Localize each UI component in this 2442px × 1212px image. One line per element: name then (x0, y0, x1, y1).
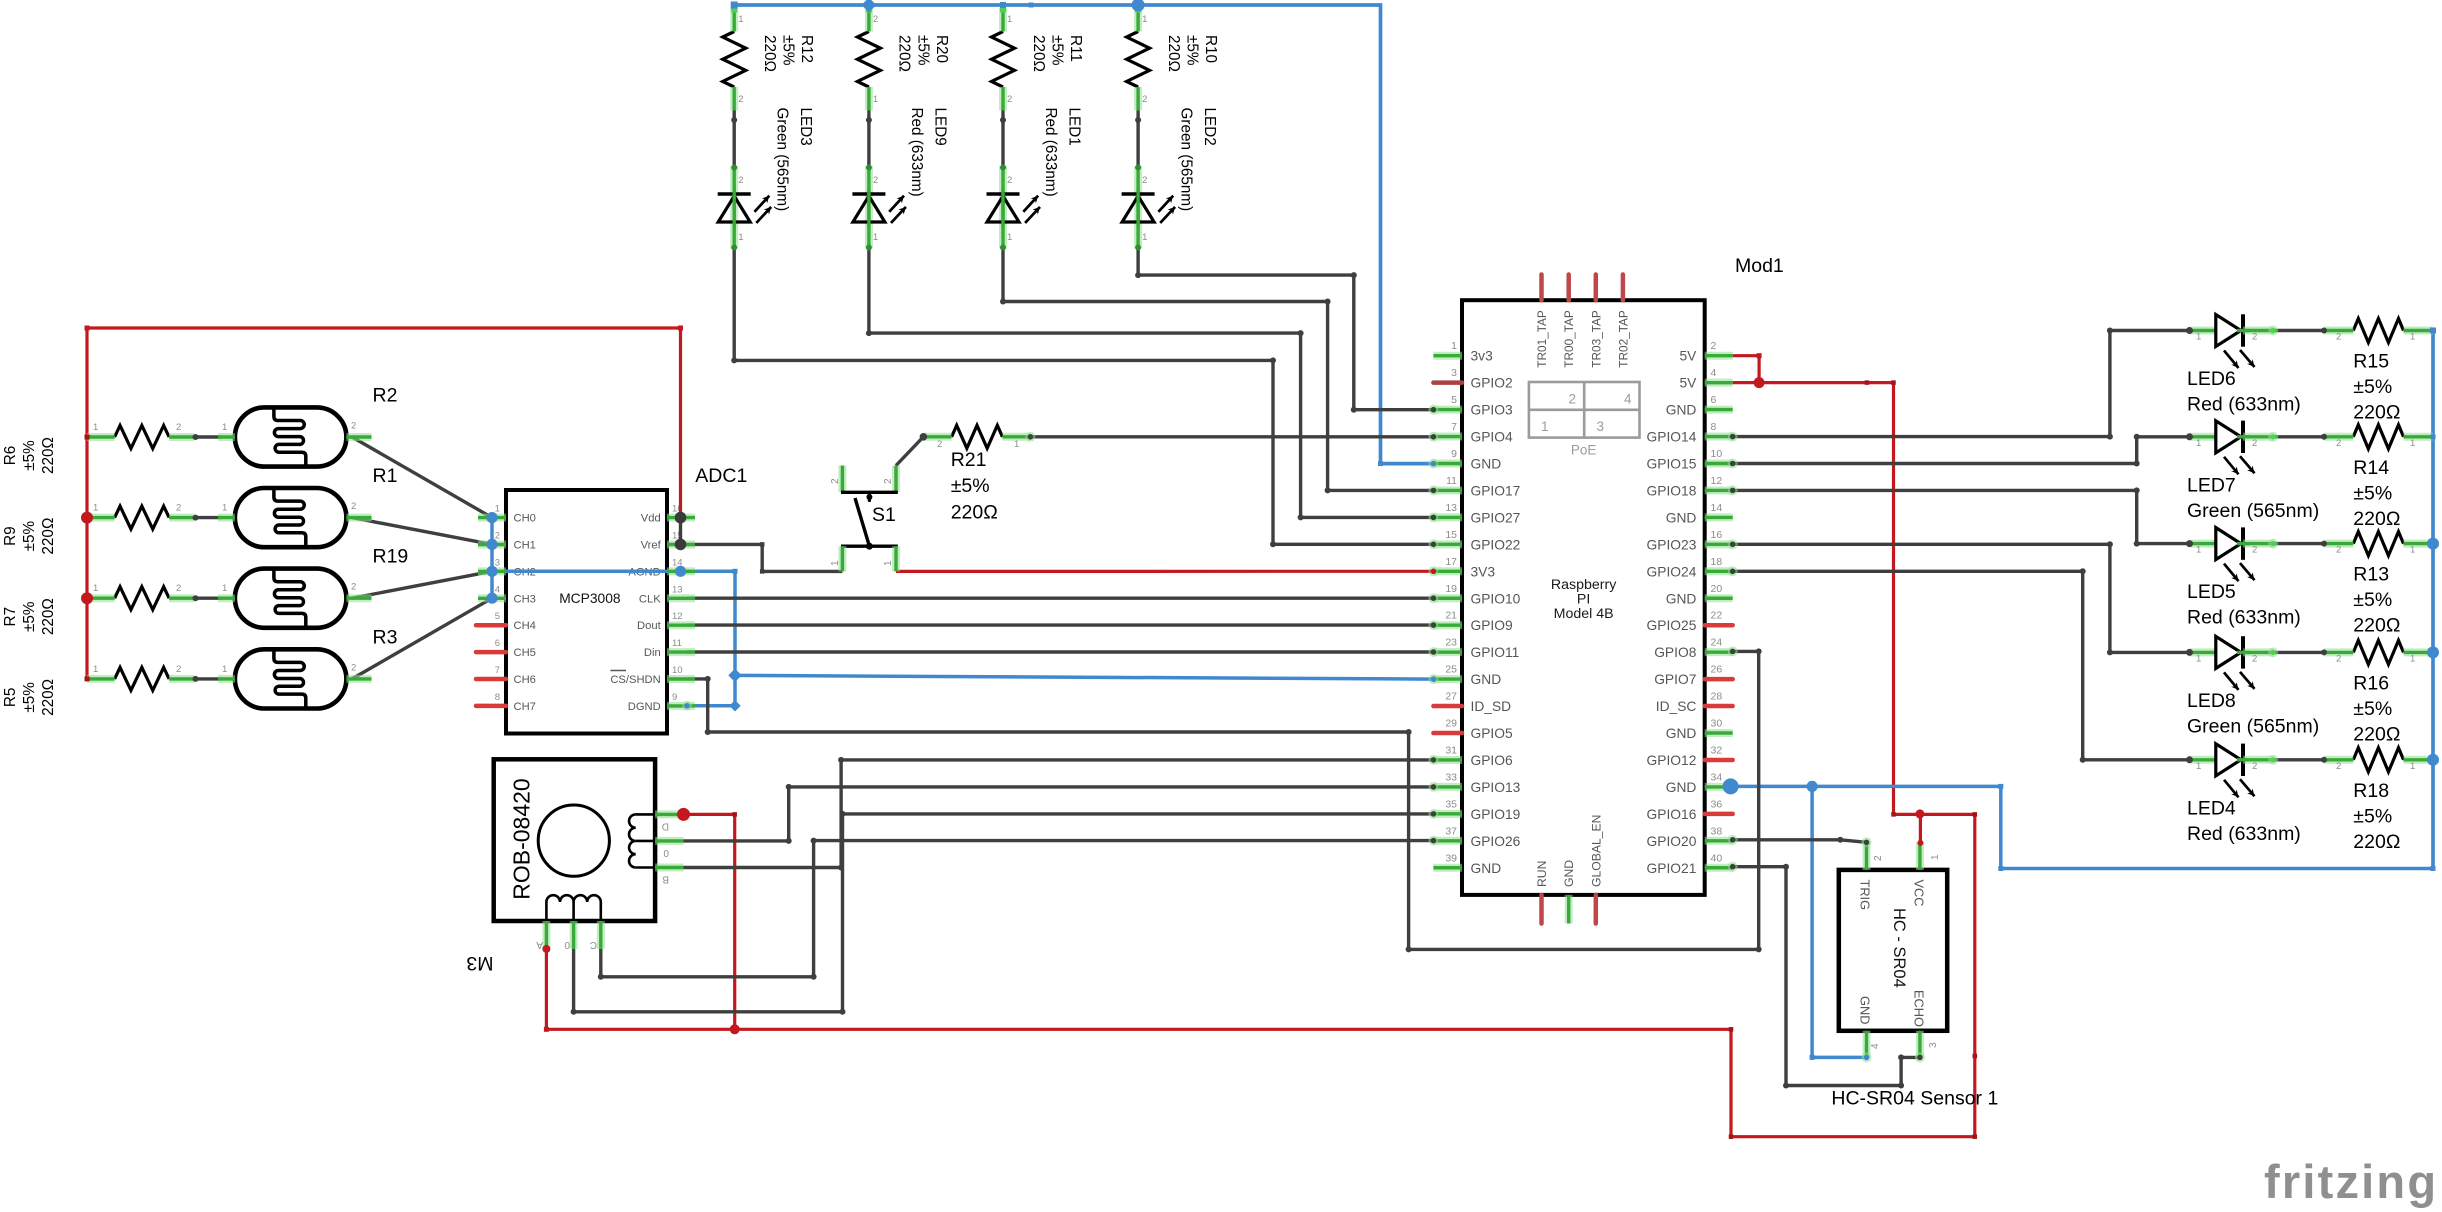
svg-text:TR00_TAP: TR00_TAP (1562, 310, 1576, 368)
svg-text:4: 4 (495, 584, 500, 595)
photoresistor R3 body (235, 649, 347, 708)
svg-text:2: 2 (176, 664, 181, 675)
svg-text:±5%: ±5% (2353, 698, 2392, 720)
svg-text:GND: GND (1858, 996, 1873, 1024)
svg-text:25: 25 (1445, 664, 1457, 676)
svg-text:2: 2 (351, 501, 356, 512)
svg-text:2: 2 (1142, 175, 1147, 186)
svg-text:1: 1 (2410, 653, 2415, 664)
svg-text:22: 22 (1711, 610, 1723, 622)
svg-text:ECHO: ECHO (1912, 990, 1927, 1027)
svg-text:33: 33 (1445, 771, 1457, 783)
svg-text:16: 16 (1711, 529, 1723, 541)
svg-text:ADC1: ADC1 (695, 465, 747, 487)
svg-text:Green (565nm): Green (565nm) (1177, 108, 1194, 212)
wire MCP3008 CLK to Pi GPIO10 (687, 597, 1433, 600)
resistor R18 220 ohm (2353, 748, 2403, 772)
svg-text:±5%: ±5% (2353, 376, 2392, 398)
svg-text:GPIO25: GPIO25 (1647, 618, 1697, 633)
svg-text:3: 3 (1597, 419, 1605, 434)
wire MCP3008 Dout to Pi GPIO9 (687, 623, 1433, 626)
svg-text:GND: GND (1562, 860, 1576, 887)
svg-text:LED4: LED4 (2187, 797, 2236, 819)
wire motor pin 0 (bottom) to Pi GPIO19 (574, 814, 1434, 1012)
svg-text:VCC: VCC (1912, 880, 1927, 907)
svg-text:GPIO14: GPIO14 (1647, 430, 1697, 445)
svg-text:GPIO20: GPIO20 (1647, 834, 1697, 849)
svg-text:GPIO15: GPIO15 (1647, 457, 1697, 472)
svg-text:B: B (662, 874, 669, 885)
resistor R10 220 ohm (1127, 32, 1150, 88)
svg-text:ID_SD: ID_SD (1471, 699, 1512, 714)
svg-text:GPIO12: GPIO12 (1647, 753, 1697, 768)
svg-text:1: 1 (1142, 14, 1147, 25)
svg-text:1: 1 (2196, 545, 2201, 556)
svg-text:2: 2 (176, 422, 181, 433)
wire R3 to MCP3008 CH3 (352, 598, 492, 679)
svg-text:1: 1 (1014, 439, 1019, 450)
svg-text:GPIO8: GPIO8 (1654, 645, 1696, 660)
svg-text:3: 3 (1928, 1042, 1939, 1048)
svg-text:220Ω: 220Ω (40, 679, 57, 716)
svg-text:1: 1 (1930, 854, 1941, 860)
MCP3008 pins (478, 514, 506, 522)
svg-text:A: A (536, 939, 543, 950)
svg-text:5: 5 (495, 611, 500, 622)
svg-text:1: 1 (93, 422, 98, 433)
svg-text:GPIO24: GPIO24 (1647, 564, 1697, 579)
svg-text:GPIO9: GPIO9 (1471, 618, 1513, 633)
svg-text:CH5: CH5 (514, 647, 536, 659)
svg-text:Red (633nm): Red (633nm) (2187, 607, 2301, 629)
svg-text:1: 1 (2196, 653, 2201, 664)
svg-text:39: 39 (1445, 852, 1457, 864)
svg-text:220Ω: 220Ω (2353, 508, 2400, 530)
svg-text:4: 4 (1624, 392, 1632, 407)
svg-text:31: 31 (1445, 744, 1457, 756)
wire LED6 cathode to R15 (2273, 329, 2324, 332)
svg-text:2: 2 (1711, 340, 1717, 352)
photoresistor R19 body (235, 569, 347, 628)
resistor R11 220 ohm (992, 32, 1015, 88)
svg-text:220Ω: 220Ω (2353, 402, 2400, 424)
svg-text:±5%: ±5% (2353, 482, 2392, 504)
svg-text:CS/SHDN: CS/SHDN (610, 674, 660, 686)
photoresistor R19 stubs (193, 595, 199, 601)
photoresistor R1 stubs (193, 515, 199, 521)
svg-text:220Ω: 220Ω (951, 502, 998, 524)
resistor R13 220 ohm (2353, 532, 2403, 556)
svg-text:R13: R13 (2353, 564, 2389, 586)
svg-text:1: 1 (222, 422, 227, 433)
svg-text:LED2: LED2 (1201, 108, 1218, 146)
svg-text:R10: R10 (1202, 35, 1219, 63)
svg-text:GPIO18: GPIO18 (1647, 483, 1697, 498)
svg-text:2: 2 (830, 478, 841, 484)
wire red 5V net: Pi pin2/pin4 to motor and HC-SR04 (1733, 356, 1759, 383)
photoresistor R3 stubs (193, 676, 199, 682)
svg-text:GPIO2: GPIO2 (1471, 376, 1513, 391)
svg-text:1: 1 (2410, 438, 2415, 449)
svg-text:8: 8 (1711, 421, 1717, 433)
svg-text:1: 1 (222, 583, 227, 594)
svg-text:1: 1 (93, 664, 98, 675)
svg-text:36: 36 (1711, 798, 1723, 810)
svg-text:5V: 5V (1680, 376, 1698, 391)
svg-text:LED8: LED8 (2187, 690, 2236, 712)
svg-text:23: 23 (1445, 637, 1457, 649)
svg-text:2: 2 (937, 439, 942, 450)
svg-text:Red (633nm): Red (633nm) (908, 108, 925, 197)
svg-text:34: 34 (1711, 771, 1723, 783)
svg-text:GPIO26: GPIO26 (1471, 834, 1521, 849)
svg-text:R19: R19 (373, 546, 409, 568)
svg-text:2: 2 (351, 421, 356, 432)
svg-text:GPIO17: GPIO17 (1471, 483, 1521, 498)
wire R6 to R2 (194, 435, 222, 438)
svg-text:D: D (662, 821, 669, 832)
wire Pi to LED5 anode (1733, 490, 2190, 543)
svg-text:Red (633nm): Red (633nm) (2187, 394, 2301, 416)
svg-text:7: 7 (495, 665, 500, 676)
svg-text:CH0: CH0 (514, 513, 536, 525)
svg-text:R2: R2 (373, 385, 398, 407)
svg-text:2: 2 (873, 14, 878, 25)
svg-text:±5%: ±5% (951, 475, 990, 497)
svg-text:±5%: ±5% (21, 601, 38, 632)
svg-text:±5%: ±5% (914, 35, 931, 66)
svg-text:1: 1 (222, 503, 227, 514)
svg-text:3v3: 3v3 (1471, 349, 1494, 364)
wire LED1 cathode to resistor / anode to Pi (1001, 111, 1004, 167)
svg-text:GPIO11: GPIO11 (1471, 645, 1520, 660)
svg-text:1: 1 (2196, 332, 2201, 343)
svg-text:Vref: Vref (641, 540, 662, 552)
PoE header inside Mod1 (1529, 382, 1640, 438)
svg-text:CH3: CH3 (514, 593, 536, 605)
svg-text:2: 2 (2336, 332, 2341, 343)
svg-text:GND: GND (1471, 672, 1502, 687)
svg-text:TRIG: TRIG (1858, 880, 1873, 911)
svg-text:1: 1 (93, 503, 98, 514)
svg-text:4: 4 (1870, 1043, 1881, 1049)
wire MCP3008 CS/SHDN to Pi GPIO8 pin24 (687, 651, 1759, 949)
svg-text:6: 6 (495, 638, 500, 649)
svg-text:R3: R3 (373, 626, 398, 648)
svg-text:GPIO22: GPIO22 (1471, 537, 1521, 552)
svg-text:GPIO21: GPIO21 (1647, 861, 1697, 876)
svg-text:CLK: CLK (639, 593, 661, 605)
svg-text:1: 1 (2410, 332, 2415, 343)
svg-text:CH4: CH4 (514, 620, 536, 632)
svg-text:Dout: Dout (637, 620, 662, 632)
wire Pi to LED7 anode (1733, 437, 2190, 464)
LED LED6 (2190, 327, 2216, 335)
resistor R16 220 ohm (2353, 640, 2403, 664)
svg-text:2: 2 (2252, 761, 2257, 772)
svg-text:3V3: 3V3 (1471, 564, 1496, 579)
photoresistor R2 body (235, 407, 347, 466)
wire R1 to MCP3008 CH1 (352, 518, 492, 545)
svg-text:13: 13 (672, 584, 683, 595)
svg-text:GPIO7: GPIO7 (1654, 672, 1696, 687)
svg-text:ID_SC: ID_SC (1656, 699, 1697, 714)
svg-text:GND: GND (1471, 457, 1502, 472)
svg-text:2: 2 (176, 503, 181, 514)
wire Pi GPIO21 pin40 to HC-SR04 ECHO (1733, 867, 1920, 1086)
svg-text:GPIO27: GPIO27 (1471, 510, 1521, 525)
LED LED9 (866, 117, 872, 123)
svg-text:fritzing: fritzing (2264, 1155, 2438, 1208)
IC Mod1 Raspberry Pi Model 4B body (1462, 300, 1705, 895)
svg-text:LED3: LED3 (797, 108, 814, 146)
sensor HC-SR04 body (1839, 870, 1947, 1031)
svg-text:R14: R14 (2353, 457, 2389, 479)
svg-text:1: 1 (1142, 232, 1147, 243)
svg-text:4: 4 (1711, 367, 1717, 379)
svg-text:GPIO4: GPIO4 (1471, 430, 1513, 445)
svg-text:CH7: CH7 (514, 701, 536, 713)
svg-text:Green (565nm): Green (565nm) (2187, 715, 2319, 737)
resistor R7 220 ohm (115, 587, 170, 610)
svg-text:3: 3 (1451, 367, 1457, 379)
svg-text:R15: R15 (2353, 351, 2389, 373)
LED LED7 (2190, 433, 2216, 441)
svg-text:12: 12 (672, 611, 683, 622)
svg-text:HC-SR04 Sensor 1: HC-SR04 Sensor 1 (1831, 1088, 1998, 1110)
photoresistor R1 body (235, 488, 347, 547)
svg-text:LED7: LED7 (2187, 474, 2236, 496)
resistor R6 220 ohm (115, 426, 170, 449)
LED LED4 (2190, 756, 2216, 764)
svg-text:1: 1 (1007, 14, 1012, 25)
svg-text:R16: R16 (2353, 672, 2389, 694)
svg-text:1: 1 (1451, 340, 1457, 352)
wire MCP3008 Vref to S1 (681, 544, 843, 571)
wire LED8 cathode to R16 (2273, 651, 2324, 654)
svg-text:2: 2 (1007, 94, 1012, 105)
wire blue top GND bus to Pi pin9 (734, 5, 1433, 464)
svg-text:13: 13 (1445, 502, 1457, 514)
wire LED3 cathode to resistor / anode to Pi (733, 111, 736, 167)
wire Pi GPIO20 pin38 to HC-SR04 TRIG (1733, 840, 1867, 843)
svg-text:2: 2 (2336, 761, 2341, 772)
wire S1 to R21 (896, 437, 923, 466)
switch S1 (838, 466, 846, 493)
svg-text:2: 2 (883, 478, 894, 484)
wire R5 to R3 (194, 677, 222, 680)
svg-text:7: 7 (1451, 421, 1457, 433)
svg-text:8: 8 (495, 692, 500, 703)
svg-text:3: 3 (495, 557, 500, 568)
junction dots (85, 326, 90, 331)
svg-text:15: 15 (1445, 529, 1457, 541)
svg-text:±5%: ±5% (2353, 805, 2392, 827)
svg-text:1: 1 (222, 664, 227, 675)
svg-text:1: 1 (2410, 545, 2415, 556)
svg-text:LED6: LED6 (2187, 368, 2236, 390)
wire motor pin B to Pi GPIO6 (684, 760, 1434, 868)
svg-text:2: 2 (1007, 175, 1012, 186)
LED LED5 (2190, 540, 2216, 548)
svg-text:0: 0 (564, 939, 570, 950)
svg-text:18: 18 (1711, 556, 1723, 568)
svg-text:GND: GND (1666, 726, 1697, 741)
wire R19 to MCP3008 CH2 (352, 571, 492, 598)
svg-text:1: 1 (2196, 438, 2201, 449)
svg-text:GND: GND (1666, 510, 1697, 525)
svg-text:1: 1 (1007, 232, 1012, 243)
svg-text:TR03_TAP: TR03_TAP (1589, 310, 1603, 368)
svg-text:220Ω: 220Ω (1165, 35, 1182, 72)
wire red motor pin D (684, 814, 735, 1029)
LED LED3 (731, 117, 737, 123)
svg-text:±5%: ±5% (2353, 589, 2392, 611)
svg-text:1: 1 (873, 94, 878, 105)
svg-text:2: 2 (738, 175, 743, 186)
wire R9 to R1 (194, 516, 222, 519)
wire red 3v3 bus left (85, 328, 88, 679)
svg-text:±5%: ±5% (21, 682, 38, 713)
svg-text:9: 9 (672, 692, 677, 703)
svg-text:20: 20 (1711, 583, 1723, 595)
svg-text:C: C (590, 939, 597, 950)
svg-text:1: 1 (883, 560, 894, 566)
svg-text:1: 1 (2410, 761, 2415, 772)
svg-text:±5%: ±5% (21, 520, 38, 551)
resistor R20 220 ohm (857, 32, 880, 88)
svg-text:12: 12 (1711, 475, 1723, 487)
IC ADC1 MCP3008 body (506, 490, 667, 734)
svg-text:26: 26 (1711, 664, 1723, 676)
wire MCP3008 Vdd-Vref tie (679, 518, 682, 545)
svg-text:2: 2 (2252, 438, 2257, 449)
svg-text:2: 2 (351, 662, 356, 673)
svg-text:GPIO23: GPIO23 (1647, 537, 1697, 552)
svg-text:2: 2 (176, 583, 181, 594)
svg-text:R21: R21 (951, 449, 987, 471)
svg-text:R5: R5 (2, 688, 19, 708)
svg-text:S1: S1 (872, 504, 896, 526)
svg-text:GPIO6: GPIO6 (1471, 753, 1513, 768)
svg-text:Red (633nm): Red (633nm) (1042, 108, 1059, 197)
svg-text:R12: R12 (798, 35, 815, 63)
svg-text:11: 11 (672, 638, 682, 649)
svg-text:GND: GND (1471, 861, 1502, 876)
svg-text:RUN: RUN (1535, 861, 1549, 887)
svg-text:17: 17 (1445, 556, 1457, 568)
svg-text:TR02_TAP: TR02_TAP (1616, 310, 1630, 368)
svg-text:PoE: PoE (1571, 443, 1597, 458)
svg-text:6: 6 (1711, 394, 1717, 406)
svg-text:GLOBAL_EN: GLOBAL_EN (1589, 815, 1603, 887)
svg-text:2: 2 (738, 94, 743, 105)
svg-text:1: 1 (738, 14, 743, 25)
wire R21 to Pi GPIO4 pin7 (1030, 435, 1433, 438)
svg-text:R18: R18 (2353, 780, 2389, 802)
svg-text:40: 40 (1711, 852, 1723, 864)
wire red S1 to Pi 3V3 pin17 (896, 570, 1433, 573)
svg-text:5V: 5V (1680, 349, 1698, 364)
svg-text:GPIO3: GPIO3 (1471, 403, 1513, 418)
svg-text:2: 2 (1142, 94, 1147, 105)
svg-text:220Ω: 220Ω (40, 598, 57, 635)
svg-text:2: 2 (1568, 392, 1576, 407)
wire R7 to R19 (194, 597, 222, 600)
svg-text:DGND: DGND (628, 701, 661, 713)
HC-SR04 pins (1863, 842, 1871, 870)
svg-text:1: 1 (738, 232, 743, 243)
svg-text:0: 0 (663, 847, 669, 858)
svg-text:32: 32 (1711, 744, 1723, 756)
motor M3 ROB-08420 body (494, 759, 655, 921)
svg-text:220Ω: 220Ω (896, 35, 913, 72)
svg-text:2: 2 (351, 582, 356, 593)
svg-text:M3: M3 (466, 952, 493, 974)
svg-text:35: 35 (1445, 798, 1457, 810)
resistor R5 220 ohm (115, 667, 170, 690)
wire LED9 cathode to resistor / anode to Pi (867, 111, 870, 167)
svg-text:5: 5 (1451, 394, 1457, 406)
svg-text:HC - SR04: HC - SR04 (1890, 908, 1908, 988)
svg-text:2: 2 (2252, 545, 2257, 556)
svg-text:2: 2 (1873, 855, 1884, 861)
svg-text:2: 2 (2336, 653, 2341, 664)
svg-text:2: 2 (2336, 438, 2341, 449)
svg-text:1: 1 (873, 232, 878, 243)
LED LED1 (1000, 117, 1006, 123)
svg-text:R6: R6 (2, 446, 19, 466)
svg-text:R9: R9 (2, 526, 19, 546)
wire LED2 cathode to resistor / anode to Pi (1136, 111, 1139, 167)
svg-text:CH1: CH1 (514, 540, 536, 552)
LED LED2 (1135, 117, 1141, 123)
svg-text:±5%: ±5% (1048, 35, 1065, 66)
svg-text:220Ω: 220Ω (761, 35, 778, 72)
svg-text:21: 21 (1445, 610, 1457, 622)
svg-text:30: 30 (1711, 718, 1723, 730)
svg-text:14: 14 (1711, 502, 1723, 514)
svg-text:10: 10 (672, 665, 683, 676)
svg-text:2: 2 (495, 531, 500, 542)
svg-text:Din: Din (644, 647, 661, 659)
svg-text:GPIO16: GPIO16 (1647, 807, 1697, 822)
svg-text:Green (565nm): Green (565nm) (2187, 500, 2319, 522)
svg-text:1: 1 (1541, 419, 1549, 434)
svg-text:±5%: ±5% (21, 440, 38, 471)
svg-text:±5%: ±5% (1184, 35, 1201, 66)
svg-text:LED9: LED9 (932, 108, 949, 146)
svg-text:220Ω: 220Ω (2353, 831, 2400, 853)
svg-text:19: 19 (1445, 583, 1457, 595)
svg-text:220Ω: 220Ω (2353, 615, 2400, 637)
motor pins (655, 810, 683, 818)
svg-text:GPIO13: GPIO13 (1471, 780, 1521, 795)
svg-text:24: 24 (1711, 637, 1723, 649)
svg-text:Red (633nm): Red (633nm) (2187, 823, 2301, 845)
svg-text:1: 1 (830, 560, 841, 566)
svg-text:2: 2 (2252, 653, 2257, 664)
svg-text:MCP3008: MCP3008 (559, 591, 621, 606)
wire blue Pi pin34 GND to HC-SR04 GND and LED bus (1733, 785, 2001, 789)
svg-text:R7: R7 (2, 607, 19, 627)
resistor R15 220 ohm (2353, 319, 2403, 343)
svg-text:220Ω: 220Ω (40, 437, 57, 474)
svg-text:2: 2 (873, 175, 878, 186)
svg-text:Model 4B: Model 4B (1554, 606, 1614, 622)
photoresistor R2 stubs (193, 434, 199, 440)
svg-text:1: 1 (93, 583, 98, 594)
